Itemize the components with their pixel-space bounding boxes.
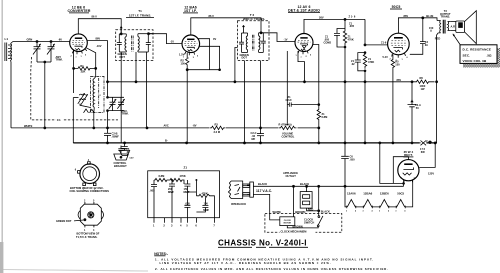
svg-text:LINE VOLTAGE SET AT 117 V A.C.: LINE VOLTAGE SET AT 117 V A.C.. READINGS… xyxy=(160,261,332,265)
label T1 1ST I.F. TRANS. xyxy=(126,9,154,18)
node junction C1A xyxy=(36,40,39,43)
svg-text:150: 150 xyxy=(181,62,186,66)
resistor R6 xyxy=(412,76,435,91)
wire R1 right to L2 top xyxy=(95,68,97,76)
node junction outlet return on switch feed xyxy=(317,209,320,212)
svg-text:470K: 470K xyxy=(368,60,374,64)
rectifier tube V5 35W4 xyxy=(398,160,419,183)
svg-text:INTERLOCK: INTERLOCK xyxy=(231,202,246,206)
capacitor C3-A electrolytic xyxy=(408,82,421,143)
osc trimmer top bus xyxy=(108,96,125,98)
node junction T2 pin2 on bus1 xyxy=(259,127,262,130)
tube V2 pin numbers xyxy=(183,56,199,61)
wire RED primary return xyxy=(437,33,439,82)
wire V3 plate to coupling xyxy=(304,19,365,33)
IF amplifier tube V2 12BA6 xyxy=(182,35,200,55)
node junction T2 pin1 on bus2 xyxy=(243,141,246,144)
svg-text:1W: 1W xyxy=(421,87,425,91)
svg-text:150: 150 xyxy=(395,62,400,66)
coil T2 primary xyxy=(246,33,247,52)
svg-text:WHITE: WHITE xyxy=(24,124,33,128)
bottom view L2 osc coil xyxy=(75,159,100,191)
wire AC hot line xyxy=(253,185,403,187)
svg-text:AVC: AVC xyxy=(164,124,169,128)
wire AC neutral from plug xyxy=(253,194,279,220)
node junction C2-C on bus2 xyxy=(259,142,262,145)
resistor Z1 470K branch xyxy=(343,29,354,48)
wire T1 pin to bus2 and spark plate xyxy=(120,52,122,143)
capacitor T1 secondary xyxy=(146,34,151,52)
svg-text:.005: .005 xyxy=(349,24,355,28)
svg-text:BROWN: BROWN xyxy=(295,210,305,214)
svg-text:SWITCH: SWITCH xyxy=(304,221,314,225)
node junction R5 on bus2 xyxy=(392,142,395,145)
pentagrid converter tube V1 12BE6 xyxy=(70,34,88,54)
IF transformer T1 dashed box xyxy=(116,30,153,61)
node junction pair2 on bus2 xyxy=(364,142,367,145)
label GREEN DOT pointer xyxy=(56,219,84,223)
svg-text:BRACKET: BRACKET xyxy=(114,164,127,168)
pointer arrow to transformer xyxy=(453,34,461,46)
capacitor C4 xyxy=(410,18,429,55)
wire to volume wiper arrow xyxy=(286,105,288,124)
node junction trimmer bottom xyxy=(106,109,109,112)
node junction Z1 bottom xyxy=(344,46,347,49)
svg-text:R6: R6 xyxy=(420,76,424,80)
svg-text:470K: 470K xyxy=(348,37,354,41)
node junction V5 pin4 xyxy=(402,182,405,185)
svg-text:4: 4 xyxy=(388,210,389,213)
svg-text:26V: 26V xyxy=(319,15,324,19)
svg-text:50C5: 50C5 xyxy=(392,5,401,9)
resistor R2 cathode xyxy=(181,53,189,70)
node junction outlet feed xyxy=(305,185,308,188)
node junction T1 pin2 on AVC xyxy=(135,80,138,83)
couplate capacitor 100MMF xyxy=(196,198,209,213)
capacitor C2-C xyxy=(251,128,265,143)
svg-text:.02: .02 xyxy=(351,62,355,66)
node junction cathode on AVC xyxy=(303,80,306,83)
tuning capacitor C1A xyxy=(33,42,41,63)
oscillator feedback winding xyxy=(73,93,90,107)
wire R5 to bus2 xyxy=(392,70,394,143)
antenna coil L1 xyxy=(5,43,12,62)
svg-text:5.4V: 5.4V xyxy=(130,157,135,160)
wire bus1 to bus2 drop xyxy=(72,128,74,143)
wire bus2 drops to heater string taps xyxy=(380,143,394,184)
svg-text:Z 1- 6: Z 1- 6 xyxy=(349,15,356,19)
svg-text:2ND I F TRANS.: 2ND I F TRANS. xyxy=(243,17,266,21)
oscillator coil L2 winding xyxy=(93,78,99,108)
slug adjust arrow T1 xyxy=(120,27,122,34)
IF transformer T2 dashed box xyxy=(238,21,270,61)
svg-text:125V: 125V xyxy=(428,171,434,175)
svg-text:C2-D: C2-D xyxy=(286,98,292,102)
wire trimmer bottom to bus1 xyxy=(107,111,109,128)
svg-text:12AV6: 12AV6 xyxy=(347,192,356,196)
capacitor Z1 .02 branch xyxy=(351,53,365,71)
node junction L2 bottom on bus xyxy=(92,127,95,130)
svg-text:BROWN: BROWN xyxy=(293,224,303,228)
node junction switch feed xyxy=(317,185,320,188)
wire trimmer bottoms tie xyxy=(37,61,51,63)
node junction trimmer top xyxy=(106,96,109,99)
volume control R7 xyxy=(279,123,298,139)
svg-text:Z1-6: Z1-6 xyxy=(381,41,387,45)
svg-text:0V: 0V xyxy=(213,37,216,41)
wire L1 top to grid of V1 xyxy=(11,42,70,44)
node junction R6 right xyxy=(435,80,438,83)
svg-text:COIL SHOWING CONNECTIONS: COIL SHOWING CONNECTIONS xyxy=(70,189,110,193)
node junction screen line on AVC wire xyxy=(106,80,109,83)
svg-text:117 V.A.C.: 117 V.A.C. xyxy=(256,189,272,193)
node junction det load right xyxy=(318,103,321,106)
capacitor Z1 .005 branch xyxy=(324,29,346,48)
label NOTES xyxy=(154,252,168,256)
wire T1 pin3 to bus1 xyxy=(146,52,148,128)
svg-text:1ST I.F. TRANS.: 1ST I.F. TRANS. xyxy=(129,14,152,18)
wire V2 screen to cathode tie xyxy=(198,39,210,70)
output transformer T3 secondary coil xyxy=(448,22,451,31)
trimmer capacitor C1C xyxy=(109,97,116,110)
node junction pair2 on AVC line xyxy=(364,80,367,83)
svg-text:BLACK: BLACK xyxy=(321,210,330,214)
table D.C. RESISTANCE box xyxy=(460,45,500,68)
svg-text:86V: 86V xyxy=(96,36,101,40)
svg-text:86 V: 86 V xyxy=(209,14,215,18)
output transformer T3 primary coil xyxy=(437,21,441,33)
capacitor T1 primary xyxy=(117,34,122,52)
tube V1 pin numbers xyxy=(71,55,88,60)
svg-text:GREEN DOT: GREEN DOT xyxy=(56,219,72,223)
node junction C1B xyxy=(50,40,53,43)
wire T2 AVC return xyxy=(235,48,238,82)
svg-text:4: 4 xyxy=(404,210,405,213)
node junction R1 left xyxy=(72,67,75,70)
node junction T1 secondary top xyxy=(147,32,150,35)
label T2 2ND I.F. TRANS. xyxy=(243,13,266,21)
svg-text:RED: RED xyxy=(435,37,441,41)
svg-text:CLOCK: CLOCK xyxy=(284,220,292,222)
wire RED line down to rectifier cathode xyxy=(419,82,436,168)
speaker LS1 xyxy=(456,11,477,44)
svg-text:COND: COND xyxy=(324,40,332,44)
fuse resistor 17 ohm xyxy=(420,140,432,154)
svg-text:MMF: MMF xyxy=(168,190,174,194)
node junction rectifier out xyxy=(434,141,437,144)
wire T2 primary bottom tie xyxy=(242,51,248,53)
node junction R1 right xyxy=(94,67,97,70)
svg-text:4: 4 xyxy=(355,210,356,213)
wire V1 cathode down xyxy=(73,50,75,68)
capacitor C6 xyxy=(341,143,355,186)
svg-text:OUTLET: OUTLET xyxy=(286,174,297,178)
resistor R3 xyxy=(210,122,226,133)
node junction C3-A on bus2 xyxy=(411,142,414,145)
svg-text:CHASSIS No. V-240I-I: CHASSIS No. V-240I-I xyxy=(218,239,307,248)
SECTION: scan artifacts xyxy=(0,0,148,273)
svg-text:3: 3 xyxy=(395,211,396,213)
svg-text:12BA6: 12BA6 xyxy=(363,192,372,196)
gang link dashed C1 xyxy=(31,57,118,120)
node junction C2-B on bus2 xyxy=(106,142,109,145)
svg-text:T1: T1 xyxy=(138,9,142,13)
wire clock motor feed down xyxy=(293,186,295,217)
svg-text:DOT: DOT xyxy=(120,55,126,59)
switch S1 xyxy=(317,216,323,227)
svg-text:5.4V: 5.4V xyxy=(383,55,389,59)
capacitor C2-B xyxy=(104,128,119,143)
wire Z1 bottom down to AVC line xyxy=(344,47,346,82)
couplate capacitor 150MMF xyxy=(184,180,191,194)
svg-text:BLUE: BLUE xyxy=(426,14,433,18)
trimmer capacitor C1D xyxy=(117,97,124,110)
node junction Z1 col on AC line xyxy=(344,185,347,188)
node junction trimmer drop on bus1 xyxy=(43,127,46,130)
label 12BE6 CONVERTER xyxy=(67,6,90,14)
svg-text:Ω: Ω xyxy=(430,30,432,33)
svg-text:.005: .005 xyxy=(185,202,191,206)
node junction tap1 on bus2 xyxy=(378,142,381,145)
svg-text:3: 3 xyxy=(346,211,347,213)
resistor R4 xyxy=(317,105,327,128)
svg-text:.5Ω: .5Ω xyxy=(487,53,493,57)
svg-text:MMF: MMF xyxy=(203,208,209,212)
wire AC hot to V5 pin4 xyxy=(403,183,405,186)
couplate internal top rail xyxy=(154,178,184,184)
node junction tie right xyxy=(218,68,221,71)
node junction T1 pin on bus2 xyxy=(123,142,126,145)
core T2 xyxy=(252,35,254,51)
svg-text:1.5V: 1.5V xyxy=(179,52,185,56)
wire switch feed down xyxy=(318,186,320,215)
control bracket drawing xyxy=(114,146,134,161)
svg-text:Z1: Z1 xyxy=(184,166,188,170)
wire V3 diode plate to C2-D xyxy=(286,51,288,105)
node junction pair2 top xyxy=(364,51,367,54)
heater pin numbers xyxy=(346,210,405,213)
wire bus2 line xyxy=(73,142,435,144)
wire T2 secondary top tie xyxy=(259,32,264,34)
heater chain humps xyxy=(347,200,405,209)
svg-text:-1V: -1V xyxy=(170,40,174,44)
capacitor T2 primary xyxy=(239,33,244,52)
wire L1 bottom to B- bus xyxy=(10,60,13,128)
svg-text:DOT: DOT xyxy=(242,56,248,60)
wire trimmer tie down to B- bus xyxy=(44,62,46,128)
node junction T2 top feed xyxy=(260,31,263,34)
bottom view IF transformer xyxy=(78,200,103,232)
slug adjust arrow T2 xyxy=(243,25,245,33)
wire heater chain left to B- column xyxy=(345,186,347,207)
svg-text:6W: 6W xyxy=(421,150,425,154)
wire T1 secondary bottom tie xyxy=(138,51,148,53)
wire Z1 top drop xyxy=(344,19,346,28)
tuning capacitor C1B xyxy=(47,42,55,63)
coil T2 secondary xyxy=(259,33,260,53)
wire T2 pin2 to bus1 xyxy=(260,61,262,128)
svg-text:TRANS.: TRANS. xyxy=(440,15,450,19)
wire cathode tie xyxy=(187,69,219,71)
svg-text:-6V: -6V xyxy=(58,38,62,42)
svg-text:GRN: GRN xyxy=(27,38,33,42)
tube V5 pin numbers xyxy=(401,177,416,180)
clock motor box B1 xyxy=(280,217,295,226)
volume wiper arrow xyxy=(286,124,288,127)
wire T2 secondary to V3 grid xyxy=(261,33,295,42)
node junction trimmer tie xyxy=(43,61,46,64)
svg-text:TRIM.: TRIM. xyxy=(56,58,63,62)
node junction BLUE xyxy=(421,16,424,19)
svg-text:3.3 M: 3.3 M xyxy=(214,130,221,134)
label 12BA6 1ST I.F. xyxy=(183,6,198,14)
wire cathode line down to feedback coil xyxy=(73,68,75,93)
couplate pin numbers xyxy=(153,224,215,228)
node junction T2 return on AVC xyxy=(234,80,237,83)
wire Z1 col AVC to bus2 xyxy=(344,82,346,143)
svg-text:-8V: -8V xyxy=(193,124,197,128)
node junction Z1 top xyxy=(344,18,347,21)
interlock socket bar xyxy=(247,182,253,197)
title CHASSIS No. V-2401-1 xyxy=(218,239,308,248)
wire T1 primary bottom tie xyxy=(119,51,126,53)
wire switch to motor return xyxy=(287,226,318,228)
svg-text:6.8M: 6.8M xyxy=(159,174,165,178)
couplate capacitor .005 left xyxy=(150,185,158,218)
couplate resistor 470K lower xyxy=(195,179,214,218)
svg-text:12BE6: 12BE6 xyxy=(380,192,389,196)
wire T1 secondary to V2 grid xyxy=(149,34,183,44)
svg-text:A.R: A.R xyxy=(451,25,456,29)
wire T2 secondary bottom tie xyxy=(259,51,264,53)
wire pair2 down to bus2 xyxy=(364,71,366,143)
interlock plug P1 xyxy=(228,181,249,199)
svg-text:SEC.: SEC. xyxy=(463,53,471,57)
capacitor C2-D xyxy=(286,95,294,107)
wire outlet return xyxy=(307,208,319,211)
svg-text:50C5: 50C5 xyxy=(397,192,404,196)
wire detector load xyxy=(293,104,319,106)
svg-text:RED: RED xyxy=(308,207,314,211)
wire T2 pin1 to bus2 xyxy=(244,61,246,143)
wire coupling to output grid xyxy=(365,19,388,45)
node junction Z1 col on AVC xyxy=(344,80,347,83)
node junction cathode on bus2 xyxy=(185,142,188,145)
couplate pin stubs xyxy=(154,218,214,223)
label T3 OUTPUT TRANS. xyxy=(440,9,451,19)
svg-text:.050: .050 xyxy=(350,158,356,162)
svg-text:.05: .05 xyxy=(126,150,130,154)
wire V5 filament pin3 to heater chain xyxy=(405,179,413,207)
wire T1 secondary top tie xyxy=(138,33,153,35)
svg-text:470K: 470K xyxy=(180,174,186,178)
oscillator coil L2 dash-dot box xyxy=(91,77,105,113)
capacitor C5 spark plate to chassis xyxy=(120,143,131,156)
wire V3 cathode xyxy=(298,51,305,82)
wire V2 suppressor to cathode tie xyxy=(199,46,220,69)
wire L2 bottom lead to bus xyxy=(93,107,96,128)
svg-text:BLACK: BLACK xyxy=(258,182,267,186)
wire cathode net to bus2 xyxy=(186,70,188,143)
svg-text:.005: .005 xyxy=(150,188,156,192)
wire bus1 B- line xyxy=(11,127,319,129)
svg-text:6.8M: 6.8M xyxy=(322,115,328,119)
coil lug bumps L2 bottom xyxy=(84,109,95,113)
resistor Z1 470K branch 2 xyxy=(363,53,374,69)
node junction on bus1 col107 xyxy=(106,127,109,130)
detector tube V3 12AV6 xyxy=(295,34,313,55)
svg-text:L1: L1 xyxy=(5,37,9,41)
resistor R5 xyxy=(391,55,400,71)
svg-text:MOTOR: MOTOR xyxy=(284,223,292,225)
node junction T1 primary top xyxy=(120,33,123,36)
osc trimmer bottom bus xyxy=(108,110,125,112)
couplate wire mid tie xyxy=(187,192,196,205)
capacitor T2 secondary xyxy=(261,33,266,53)
appliance outlet J1 xyxy=(300,186,312,208)
node junction Z1 col on bus2 xyxy=(344,142,347,145)
svg-text:CLOCK MECHANISM: CLOCK MECHANISM xyxy=(281,230,307,234)
wire V1 osc grid to R1 right xyxy=(86,48,95,69)
svg-text:CONTROL: CONTROL xyxy=(282,135,295,139)
core T1 xyxy=(132,36,134,52)
node junction pair2 bottom xyxy=(364,70,367,73)
wire L2 top lead xyxy=(94,77,95,79)
label C1 xyxy=(56,117,64,121)
node junction grid tap xyxy=(364,44,367,47)
tube V3 pin numbers xyxy=(296,55,313,59)
node junction bus tie on bus2 xyxy=(317,142,320,145)
resistor R1 xyxy=(74,64,96,74)
svg-text:86V: 86V xyxy=(404,14,409,18)
svg-text:2. ALL CAPACITANCE VALUES IN: 2. ALL CAPACITANCE VALUES IN MFD. AND AL… xyxy=(155,267,389,271)
wire V1 plate to B+ xyxy=(78,19,121,34)
label CLOCK MECHANISM xyxy=(280,229,316,234)
svg-text:VOICE COIL 3Ω: VOICE COIL 3Ω xyxy=(463,59,487,63)
svg-text:TRIM.: TRIM. xyxy=(122,112,129,116)
svg-text:.05MF: .05MF xyxy=(112,134,120,138)
wire T1 primary top tie xyxy=(119,33,126,35)
clock mechanism dashed box xyxy=(265,214,342,233)
svg-text:4: 4 xyxy=(372,210,373,213)
svg-text:NOTES:-: NOTES:- xyxy=(154,252,168,256)
couplate capacitor .005 lower xyxy=(184,202,190,218)
svg-text:C1: C1 xyxy=(57,118,61,122)
wire AVC/B+ line xyxy=(108,81,413,83)
wire bus1 end to bus2 xyxy=(318,128,320,143)
wire cathode line to bus xyxy=(72,98,74,128)
output transformer T3 core xyxy=(443,20,445,34)
label 35W4 RECT. xyxy=(403,150,413,157)
svg-text:MF: MF xyxy=(252,137,256,141)
tube V4 pin numbers xyxy=(390,57,409,62)
svg-text:DET & 1ST AUDIO: DET & 1ST AUDIO xyxy=(288,9,320,13)
node junction R4 bottom on bus1 xyxy=(317,127,320,130)
label 12AV6 DET & 1ST AUDIO xyxy=(288,5,320,13)
wire V3 grid pin right xyxy=(313,45,319,105)
wire V1 screen grid xyxy=(87,41,107,82)
coil T1 primary xyxy=(125,34,126,52)
wire T1 pin2 to AVC line xyxy=(135,52,137,82)
node junction T1 pin3 on bus1 xyxy=(146,127,149,130)
label 50C5 xyxy=(390,5,402,9)
svg-text:B-: B- xyxy=(165,139,168,143)
svg-text:-10V: -10V xyxy=(96,44,102,48)
couplate Z1 box xyxy=(148,171,220,218)
couplate capacitor 200MMF xyxy=(168,179,175,218)
svg-text:T1,T2 I.F. TRANS.: T1,T2 I.F. TRANS. xyxy=(76,235,98,239)
node junction B+ filter xyxy=(411,80,414,83)
